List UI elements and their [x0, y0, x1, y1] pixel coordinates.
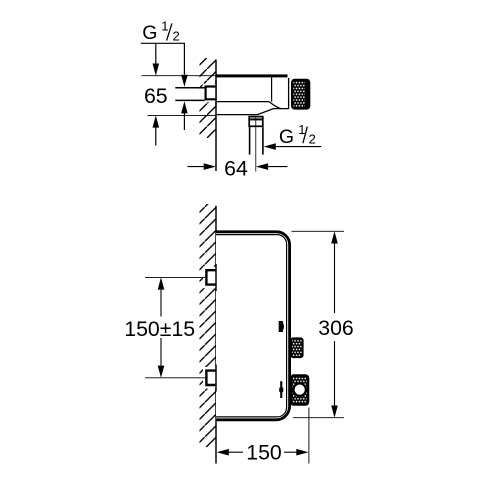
body inner vertical line: [271, 78, 273, 102]
dimension 150 right extension line: [308, 408, 310, 464]
knob solid right band: [305, 80, 310, 109]
wall connection square white margin: [203, 84, 216, 103]
shower unit body outer profile: [216, 232, 290, 420]
upper wall connection square (bottom drawing): [206, 270, 216, 284]
wall (top drawing): [200, 58, 217, 138]
G 1/2 right leader arrow to pipe: [264, 143, 322, 150]
inlet pipe stub bottom line: [175, 99, 204, 101]
wall face edge (top drawing): [215, 60, 217, 172]
svg-text:2: 2: [309, 131, 316, 146]
dimension 64 line left with arrow: [188, 163, 216, 170]
inlet pipe white gap through wall: [196, 89, 205, 99]
wall face edge redraw (bottom drawing): [215, 264, 217, 291]
dimension 65 top extension line: [142, 75, 217, 77]
dimension 65 bottom arrow: [153, 115, 160, 145]
svg-text:64: 64: [224, 157, 248, 181]
lower knurled knob with circle (bottom drawing): [291, 376, 308, 405]
wall connection square fitting (top drawing): [206, 87, 217, 100]
dimension 65 top arrow: [153, 44, 160, 76]
svg-text:306: 306: [318, 316, 354, 340]
outlet collar under body: [249, 117, 263, 127]
wall (bottom drawing): [200, 204, 217, 447]
upper square white margin: [203, 267, 216, 289]
svg-text:150±15: 150±15: [124, 317, 195, 341]
dimension 150 line with arrows: [217, 449, 309, 456]
wall face edge (bottom drawing): [215, 206, 217, 464]
body transition curve: [269, 102, 281, 109]
outlet pipe left wall: [249, 127, 251, 155]
upper knurled knob (bottom drawing): [291, 338, 302, 357]
svg-text:G: G: [142, 22, 157, 44]
shower unit body inner line: [216, 235, 287, 417]
svg-text:150: 150: [246, 441, 282, 465]
wall face edge redraw (top drawing): [215, 80, 217, 105]
temperature knob knurled (top drawing): [292, 80, 309, 108]
label G 1/2 top left: [142, 18, 179, 44]
dimension 64 line right with arrow: [256, 163, 288, 170]
dimension 150±15 line with arrows: [158, 277, 165, 377]
G 1/2 underline leader: [141, 43, 185, 74]
dimension 150±15 lower extension line: [145, 377, 205, 379]
body top thick line (top drawing): [216, 74, 288, 77]
svg-text:1: 1: [161, 18, 168, 33]
G 1/2 up arrow to pipe bottom: [181, 101, 188, 130]
svg-text:2: 2: [173, 29, 180, 44]
body outline (top drawing): [216, 78, 289, 115]
dimension 306 line with arrows: [331, 231, 338, 417]
dimension 150±15 upper extension line: [145, 276, 205, 278]
select button profile (D mark): [279, 321, 284, 332]
svg-text:G: G: [279, 126, 294, 148]
G 1/2 down arrow to pipe top: [181, 75, 188, 87]
dimension 65 bottom extension line: [148, 114, 217, 116]
inlet pipe stub top line: [175, 87, 204, 89]
collar divider line: [248, 118, 263, 120]
outlet pipe right wall: [262, 127, 264, 155]
svg-text:1: 1: [298, 122, 305, 137]
dimension 306 bottom extension line: [293, 417, 344, 419]
body mid line: [216, 101, 269, 103]
lower square white margin: [203, 367, 216, 389]
svg-text:65: 65: [144, 84, 168, 108]
outlet pipe centerline: [255, 116, 257, 172]
label G 1/2 right: [279, 122, 316, 148]
lower wall connection square (bottom drawing): [206, 371, 216, 385]
volume lever mark: [279, 381, 283, 398]
dimension 306 top extension line: [292, 230, 345, 232]
